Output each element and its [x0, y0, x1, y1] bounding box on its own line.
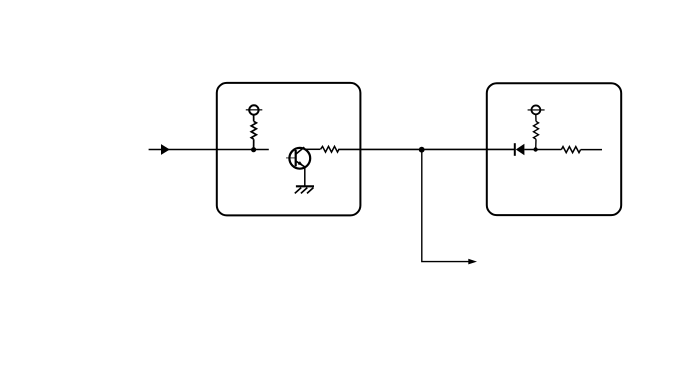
wire to junction	[338, 148, 515, 150]
node B	[419, 147, 425, 153]
resistor R2	[321, 146, 339, 152]
supply terminal P2	[528, 105, 545, 114]
node C	[533, 147, 537, 151]
resistor R3	[534, 115, 539, 150]
ground	[295, 186, 314, 193]
wire input lead	[149, 149, 269, 151]
diode D1	[515, 143, 525, 156]
node A	[251, 147, 256, 152]
wire right end	[581, 149, 602, 151]
output arrow	[468, 259, 477, 265]
block box B2	[487, 83, 621, 215]
resistor R1	[251, 115, 256, 150]
input arrow	[161, 144, 170, 155]
supply terminal P1	[246, 105, 262, 114]
wire branch down	[422, 150, 469, 262]
resistor R4	[561, 147, 580, 153]
transistor Q1	[286, 147, 310, 186]
wire diode to resistor	[524, 149, 561, 151]
block box B1	[217, 83, 361, 216]
wire collector lead	[305, 148, 320, 150]
